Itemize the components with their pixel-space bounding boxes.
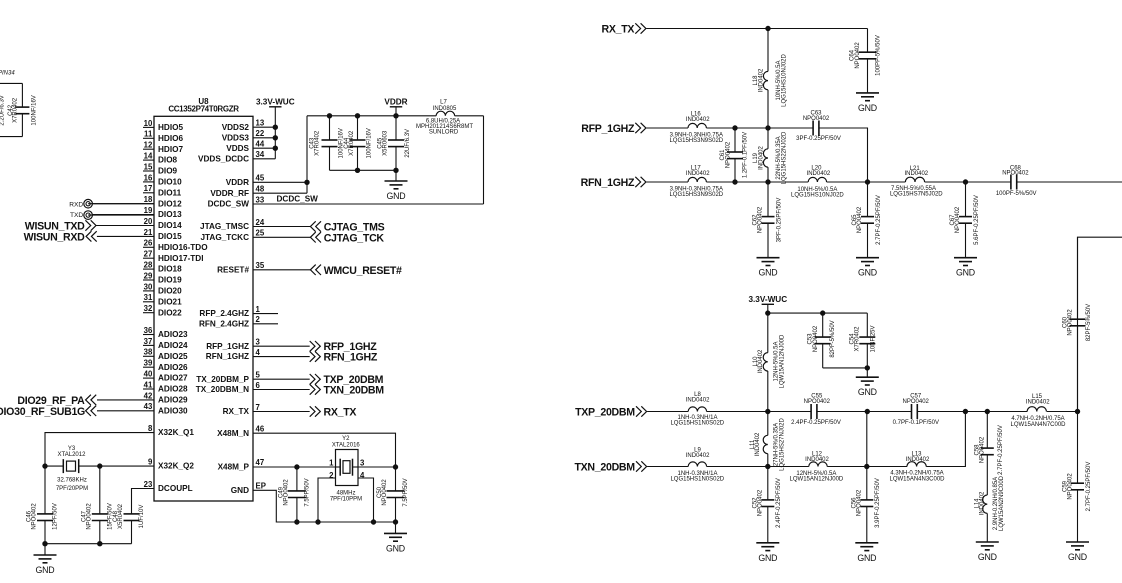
junction — [766, 180, 770, 184]
svg-text:X7R0402: X7R0402 — [349, 130, 355, 156]
svg-text:GND: GND — [231, 486, 249, 495]
svg-text:9: 9 — [148, 458, 153, 467]
node CJTAG_TCK — [253, 232, 384, 244]
svg-text:GND: GND — [858, 103, 877, 113]
wire RFN row exit right — [1017, 181, 1122, 183]
svg-text:ADIO26: ADIO26 — [158, 363, 188, 372]
inductor L14 2.9NH IND0402 — [975, 475, 1005, 542]
svg-text:GND: GND — [857, 553, 876, 563]
svg-text:RFN_1GHZ: RFN_1GHZ — [324, 352, 378, 364]
svg-text:NPO0402: NPO0402 — [813, 325, 819, 352]
svg-text:RFN_1GHZ: RFN_1GHZ — [581, 177, 635, 189]
capacitor C64 100PF-5%/50V — [850, 29, 882, 93]
pin 22 VDDS3 — [222, 129, 265, 142]
wire DCDC_SW to loop bottom — [253, 203, 484, 205]
svg-text:DIO20: DIO20 — [158, 287, 182, 296]
svg-text:100PF-5%/50V: 100PF-5%/50V — [876, 35, 882, 76]
wire TXN row to L9 — [647, 466, 688, 468]
svg-text:DIO18: DIO18 — [158, 265, 182, 274]
svg-text:17: 17 — [144, 184, 153, 193]
svg-text:VDDR_RF: VDDR_RF — [210, 189, 249, 198]
inductor L21 7.5NH IND0402 — [890, 166, 943, 198]
svg-text:X48M_N: X48M_N — [217, 429, 249, 438]
svg-text:X7R0402: X7R0402 — [12, 97, 18, 123]
svg-text:IND0402: IND0402 — [1026, 400, 1050, 406]
junction — [963, 180, 967, 184]
inductor L12 12NH IND0402 — [790, 452, 844, 483]
inductor L15 4.7NH IND0402 — [1010, 394, 1066, 428]
svg-text:13: 13 — [256, 119, 265, 128]
pin 43 ADIO30 — [97, 402, 188, 415]
svg-text:NPO0402: NPO0402 — [758, 489, 764, 516]
pin 28 DIO18 — [143, 261, 182, 274]
svg-text:IND0402: IND0402 — [807, 171, 831, 177]
pin 14 DIO8 — [143, 152, 178, 165]
svg-text:11: 11 — [144, 130, 153, 139]
pin 25 JTAG_TCKC — [200, 229, 264, 242]
svg-text:IND0402: IND0402 — [980, 491, 986, 515]
svg-text:LQW15AN4N3C00D: LQW15AN4N3C00D — [889, 476, 945, 482]
svg-text:TXN_20DBM: TXN_20DBM — [324, 385, 385, 397]
svg-text:ADIO30: ADIO30 — [158, 406, 188, 415]
wire TXD to pin 19 — [88, 214, 154, 216]
capacitor C61 1.2PF-0.1PF/50V — [720, 128, 748, 182]
pin 24 JTAG_TMSC — [200, 218, 265, 231]
svg-text:32.768KHz: 32.768KHz — [57, 477, 87, 483]
junction — [733, 126, 737, 130]
svg-text:NPO0402: NPO0402 — [857, 489, 863, 516]
crystal Y3 XTAL2012 32.768KHz — [56, 446, 88, 492]
svg-text:7.5PF/50V: 7.5PF/50V — [403, 478, 409, 506]
capacitor C59 2.7PF-0.25PF/50V — [1063, 412, 1092, 543]
capacitor C63 3PF-0.25PF/50V — [796, 111, 841, 142]
junction — [766, 311, 770, 315]
ground under C54 — [856, 368, 879, 397]
svg-text:RX_TX: RX_TX — [324, 407, 357, 419]
svg-text:10: 10 — [144, 119, 153, 128]
svg-text:3.3V-WUC: 3.3V-WUC — [256, 97, 295, 106]
svg-text:RFP_1GHZ: RFP_1GHZ — [581, 123, 635, 135]
svg-text:ADIO29: ADIO29 — [158, 396, 188, 405]
capacitor C68 100PF-5%/50V — [996, 165, 1037, 197]
svg-text:NPO0402: NPO0402 — [86, 503, 92, 530]
svg-text:X7R0402: X7R0402 — [855, 326, 861, 352]
svg-text:X7R0402: X7R0402 — [315, 130, 321, 156]
svg-text:DIO21: DIO21 — [158, 297, 182, 306]
svg-text:HDIO7: HDIO7 — [158, 145, 183, 154]
svg-text:NPO0402: NPO0402 — [1002, 171, 1029, 177]
ground under C65 — [856, 258, 879, 278]
svg-text:VDDS_DCDC: VDDS_DCDC — [198, 154, 249, 163]
pin 3 RFP_1GHZ — [206, 338, 260, 351]
wire Y2 pin4 down — [358, 478, 374, 522]
svg-text:82PF-5%/50V: 82PF-5%/50V — [1086, 304, 1092, 341]
svg-text:IND0402: IND0402 — [906, 457, 930, 463]
svg-text:XTAL2012: XTAL2012 — [58, 452, 87, 458]
svg-text:LQW15AN12NJ00D: LQW15AN12NJ00D — [790, 477, 844, 483]
pin 23 DCOUPL — [144, 480, 193, 493]
svg-text:44: 44 — [256, 140, 265, 149]
inductor L19 22NH IND0402 — [753, 128, 788, 184]
svg-text:1UF/10V: 1UF/10V — [139, 505, 145, 529]
ground under C67 — [954, 258, 977, 278]
pin 16 DIO10 — [143, 173, 182, 186]
junction — [273, 146, 277, 150]
svg-text:30: 30 — [144, 282, 153, 291]
svg-text:2.2UF/6.3V: 2.2UF/6.3V — [0, 95, 6, 125]
svg-text:18: 18 — [144, 195, 153, 204]
svg-text:LQG15HS10NJ02D: LQG15HS10NJ02D — [782, 53, 788, 106]
svg-text:4: 4 — [256, 348, 261, 357]
junction — [865, 180, 869, 184]
svg-text:12: 12 — [144, 141, 153, 150]
junction — [985, 409, 989, 413]
svg-text:X32K_Q2: X32K_Q2 — [158, 462, 194, 471]
junction — [1075, 409, 1079, 413]
svg-text:TX_20DBM_N: TX_20DBM_N — [196, 385, 249, 394]
wire TXP-TXN tie — [866, 412, 868, 467]
node WISUN_TXD — [25, 220, 96, 232]
svg-text:HDIO16-TDO: HDIO16-TDO — [158, 243, 208, 252]
pin 46 X48M_N — [217, 425, 265, 438]
pin 27 HDIO17-TDI — [143, 250, 204, 263]
svg-text:LQG15HS1N0S02D: LQG15HS1N0S02D — [670, 476, 724, 482]
wire RFN row to L17 — [646, 181, 688, 183]
node WMCU_RESET# — [253, 265, 402, 277]
svg-text:GND: GND — [387, 191, 406, 201]
junction — [295, 520, 299, 524]
capacitor C56 3.9PF-0.25PF/50V — [851, 467, 881, 543]
capacitor C54 10NF/25V — [849, 313, 876, 368]
svg-text:20: 20 — [144, 217, 153, 226]
junction — [394, 168, 398, 172]
wire Y3 row right to pin 9 — [79, 465, 154, 467]
junction — [371, 520, 375, 524]
wire TXP row to L8 — [647, 411, 688, 413]
svg-text:X5R0603: X5R0603 — [383, 130, 389, 156]
ground under C52 — [756, 543, 779, 563]
svg-text:LQW15AN12NJ00D: LQW15AN12NJ00D — [779, 334, 785, 388]
wire RFP row to L16 — [646, 127, 688, 129]
capacitor C50 7.5PF/50V — [377, 467, 409, 522]
svg-text:100PF-5%/50V: 100PF-5%/50V — [996, 191, 1037, 197]
pin 44 VDDS — [226, 140, 265, 153]
junction — [43, 464, 47, 468]
svg-text:IND0805: IND0805 — [433, 106, 457, 112]
power 3.3V-WUC (VDDS bus) — [256, 97, 295, 127]
junction — [393, 465, 397, 469]
ground Y3 section — [34, 544, 57, 575]
wire EP pad to ground rail — [253, 490, 297, 522]
inductor L13 4.3NH IND0402 — [889, 451, 945, 482]
junction — [963, 409, 967, 413]
junction — [98, 464, 102, 468]
svg-text:XTAL2016: XTAL2016 — [332, 442, 361, 448]
capacitor C47 15PF/50V — [82, 466, 114, 544]
pin 20 DIO14 — [96, 217, 182, 230]
capacitor C45 22UF/6.3V — [378, 116, 411, 171]
pin 26 HDIO16-TDO — [143, 239, 208, 252]
svg-text:10NF/25V: 10NF/25V — [871, 325, 877, 352]
svg-text:DCDC_SW: DCDC_SW — [277, 194, 319, 203]
junction — [295, 465, 299, 469]
capacitor C48 1UF/10V — [113, 503, 145, 543]
pin 30 DIO20 — [143, 282, 182, 295]
IC U8 CC1352P74T0RGZR — [154, 97, 253, 501]
wire RFN row to C68 — [925, 181, 1011, 183]
pin 35 RESET# — [217, 261, 265, 274]
node TXD — [70, 211, 92, 220]
svg-text:16: 16 — [144, 173, 153, 182]
svg-text:X48M_P: X48M_P — [218, 462, 250, 471]
wire PA rail horizontal — [768, 312, 868, 314]
svg-text:25: 25 — [256, 229, 265, 238]
svg-text:TXN_20DBM: TXN_20DBM — [575, 461, 636, 473]
capacitor C62 3PF-0.25PF/50V — [752, 182, 782, 258]
svg-text:IND0402: IND0402 — [805, 457, 829, 463]
node TXP_20DBM (right section) — [575, 406, 647, 418]
svg-text:NPO0402: NPO0402 — [955, 206, 961, 233]
pin 12 HDIO7 — [143, 141, 183, 154]
node RFN_1GHZ (right section) — [581, 177, 646, 189]
svg-text:3.9PF-0.25PF/50V: 3.9PF-0.25PF/50V — [875, 478, 881, 528]
svg-text:IND0402: IND0402 — [686, 171, 710, 177]
inductor L9 1NH IND0402 — [670, 447, 724, 482]
svg-text:39: 39 — [144, 359, 153, 368]
node DIO29_RF_PA — [17, 395, 96, 407]
svg-text:41: 41 — [144, 380, 153, 389]
pin 36 ADIO23 — [143, 326, 188, 339]
svg-text:RX_TX: RX_TX — [223, 407, 250, 416]
crystal Y2 XTAL2016 48MHz — [329, 436, 365, 502]
pin 37 ADIO24 — [143, 337, 188, 350]
svg-text:43: 43 — [144, 402, 153, 411]
pin 47 X48M_P — [218, 458, 265, 471]
pin 45 VDDR — [226, 174, 265, 187]
pin 10 HDIO5 — [143, 119, 183, 132]
wire VDDR left drop to pins 45/48 — [253, 116, 307, 193]
wire TXP row to final node — [1047, 411, 1078, 413]
wire connector-edge bottom — [0, 136, 22, 138]
svg-text:IND0402: IND0402 — [755, 432, 761, 456]
node WISUN_RXD — [24, 231, 97, 243]
svg-text:IND0402: IND0402 — [686, 453, 710, 459]
svg-text:JTAG_TMSC: JTAG_TMSC — [200, 222, 249, 231]
node TXP_20DBM (from pin 5) — [253, 374, 384, 386]
svg-text:12PF/50V: 12PF/50V — [53, 503, 59, 530]
junction — [733, 180, 737, 184]
wire TXN row to L13 — [827, 466, 907, 468]
junction — [327, 114, 331, 118]
junction — [273, 136, 277, 140]
inductor L8 1NH IND0402 — [670, 392, 724, 426]
node RX_TX (from pin 7) — [253, 406, 356, 418]
wire VDDS bus vertical — [274, 127, 276, 159]
svg-text:GND: GND — [759, 268, 778, 278]
svg-text:8: 8 — [148, 424, 153, 433]
svg-text:ADIO25: ADIO25 — [158, 352, 188, 361]
svg-text:RFP_2.4GHZ: RFP_2.4GHZ — [199, 309, 249, 318]
svg-text:RX_TX: RX_TX — [602, 23, 635, 35]
node RX_TX (right section) — [602, 23, 646, 35]
svg-text:RESET#: RESET# — [217, 265, 249, 274]
junction — [393, 520, 397, 524]
node TXN_20DBM (from pin 6) — [253, 384, 384, 396]
svg-text:19: 19 — [144, 206, 153, 215]
svg-text:LQG15HS3N9S02D: LQG15HS3N9S02D — [669, 138, 723, 144]
svg-text:DIO8: DIO8 — [158, 156, 178, 165]
svg-text:100NF/16V: 100NF/16V — [32, 95, 38, 125]
junction — [273, 125, 277, 129]
svg-text:28: 28 — [144, 261, 153, 270]
wire Y2 ground rail — [297, 521, 396, 523]
power VDDR flag — [384, 97, 407, 116]
node DIO30_RF_SUB1G (clipped) — [0, 406, 96, 418]
pin EP GND — [231, 482, 266, 495]
svg-text:0.7PF-0.1PF/50V: 0.7PF-0.1PF/50V — [893, 420, 939, 426]
pin 11 HDIO6 — [143, 130, 183, 143]
svg-text:47: 47 — [256, 458, 265, 467]
wire TXP row after C55 — [817, 411, 912, 413]
junction — [43, 542, 47, 546]
inductor L16 3.9NH IND0402 — [669, 112, 723, 144]
wire final node exit (top right corner) — [1078, 237, 1122, 411]
pin 18 DIO12 — [93, 195, 183, 208]
wire RFP row middle — [706, 127, 813, 129]
svg-text:2.7PF-0.25PF/50V: 2.7PF-0.25PF/50V — [998, 425, 1004, 475]
svg-text:GND: GND — [956, 268, 975, 278]
svg-text:33: 33 — [256, 195, 265, 204]
ground under C62 — [757, 258, 780, 278]
svg-text:WISUN_RXD: WISUN_RXD — [24, 232, 86, 244]
wire C63 right to RFN row — [819, 128, 868, 182]
inductor L20 10NH IND0402 — [791, 166, 844, 199]
svg-text:HDIO6: HDIO6 — [158, 134, 183, 143]
pin 19 DIO13 — [93, 206, 183, 219]
capacitor C52 2.4PF-0.25PF/50V — [752, 467, 782, 543]
wire RX_TX row — [646, 28, 867, 30]
svg-text:GND: GND — [758, 553, 777, 563]
svg-text:3PF-0.25PF/50V: 3PF-0.25PF/50V — [776, 198, 782, 243]
svg-text:2.7PF-0.25PF/50V: 2.7PF-0.25PF/50V — [876, 195, 882, 245]
svg-text:100NF/16V: 100NF/16V — [366, 128, 372, 158]
junction — [865, 366, 869, 370]
wire Y2 pin3 to X48M_N drop — [358, 466, 396, 468]
wire Y2 pin2 down — [318, 478, 336, 522]
svg-text:2: 2 — [256, 315, 261, 324]
svg-text:DIO15: DIO15 — [158, 232, 182, 241]
pin 2 RFN_2.4GHZ — [199, 315, 278, 328]
svg-text:GND: GND — [36, 565, 55, 575]
svg-text:48: 48 — [256, 185, 265, 194]
junction — [355, 114, 359, 118]
pin 48 VDDR_RF — [210, 185, 265, 198]
wire TXN row middle — [707, 466, 809, 468]
svg-text:NPO0402: NPO0402 — [980, 436, 986, 463]
wire pin 47 X48M_P run — [253, 466, 336, 468]
svg-text:37: 37 — [144, 337, 153, 346]
svg-text:IND0402: IND0402 — [686, 117, 710, 123]
svg-text:DIO19: DIO19 — [158, 276, 182, 285]
svg-text:27: 27 — [144, 250, 153, 259]
svg-text:DCOUPL: DCOUPL — [158, 484, 193, 493]
svg-text:DIO22: DIO22 — [158, 308, 182, 317]
svg-text:15: 15 — [144, 162, 153, 171]
pin 4 RFN_1GHZ — [206, 348, 261, 361]
svg-text:14: 14 — [144, 152, 153, 161]
svg-text:IND0402: IND0402 — [904, 171, 928, 177]
ground under C56 — [855, 543, 878, 563]
svg-text:NPO0402: NPO0402 — [284, 479, 290, 506]
svg-text:LQG15HS7N5J02D: LQG15HS7N5J02D — [890, 192, 943, 198]
ground under C45 — [385, 170, 408, 201]
svg-text:HDIO5: HDIO5 — [158, 123, 183, 132]
junction — [355, 168, 359, 172]
svg-text:2.4PF-0.25PF/50V: 2.4PF-0.25PF/50V — [791, 420, 841, 426]
pin 7 RX_TX — [223, 403, 260, 416]
junction — [394, 114, 398, 118]
svg-text:DIO11: DIO11 — [158, 188, 182, 197]
junction — [865, 464, 869, 468]
svg-text:2.4PF-0.25PF/50V: 2.4PF-0.25PF/50V — [776, 478, 782, 528]
wire pin 22 to bus — [253, 137, 275, 139]
svg-text:3: 3 — [256, 338, 261, 347]
svg-text:L7: L7 — [440, 100, 447, 106]
svg-text:DCDC_SW: DCDC_SW — [208, 200, 250, 209]
svg-text:ADIO27: ADIO27 — [158, 374, 188, 383]
junction — [766, 464, 770, 468]
svg-text:5.6PF-0.25PF/50V: 5.6PF-0.25PF/50V — [974, 195, 980, 245]
svg-text:VDDS3: VDDS3 — [222, 133, 250, 142]
svg-text:GND: GND — [858, 387, 877, 397]
wire pin 23 DCOUPL run — [132, 489, 155, 514]
wire pin 13 to bus — [253, 126, 275, 128]
pin 17 DIO11 — [143, 184, 182, 197]
ground Y2 section — [384, 522, 407, 553]
svg-text:35: 35 — [256, 261, 265, 270]
ground under C59 — [1066, 542, 1089, 562]
svg-text:6: 6 — [256, 381, 261, 390]
capacitor C46 12PF/50V — [27, 466, 59, 544]
svg-text:NPO0402: NPO0402 — [1068, 473, 1074, 500]
svg-text:JTAG_TCKC: JTAG_TCKC — [200, 233, 249, 242]
capacitor C44 100NF/16V — [344, 116, 372, 171]
svg-text:CJTAG_TCK: CJTAG_TCK — [324, 232, 385, 244]
ground under L14 — [976, 542, 999, 562]
pin 29 DIO19 — [143, 271, 182, 284]
svg-text:TXP_20DBM: TXP_20DBM — [575, 406, 635, 418]
svg-text:VDDR: VDDR — [226, 178, 249, 187]
pin 41 ADIO28 — [143, 380, 188, 393]
svg-text:PIN34: PIN34 — [0, 71, 15, 77]
node RXD — [69, 199, 92, 208]
node RFP_1GHZ (right section) — [581, 123, 646, 135]
wire C53/C54 ground rail — [823, 367, 868, 369]
svg-text:LQW15AN4N7C00D: LQW15AN4N7C00D — [1010, 422, 1066, 428]
capacitor C65 2.7PF-0.25PF/50V — [852, 182, 882, 258]
svg-text:NPO0402: NPO0402 — [803, 116, 830, 122]
node PIN34 (partial net label) — [0, 71, 15, 77]
capacitor C58 2.7PF-0.25PF/50V — [975, 412, 1005, 496]
svg-text:22UF/6.3V: 22UF/6.3V — [405, 129, 411, 158]
svg-text:WMCU_RESET#: WMCU_RESET# — [324, 265, 402, 277]
wire connector-edge top — [0, 82, 22, 84]
capacitor C43 100NF/16V — [310, 116, 345, 171]
svg-text:IND0402: IND0402 — [758, 349, 764, 373]
wire pin 44 to bus — [253, 147, 275, 149]
svg-text:ADIO28: ADIO28 — [158, 385, 188, 394]
pin 38 ADIO25 — [143, 348, 188, 361]
